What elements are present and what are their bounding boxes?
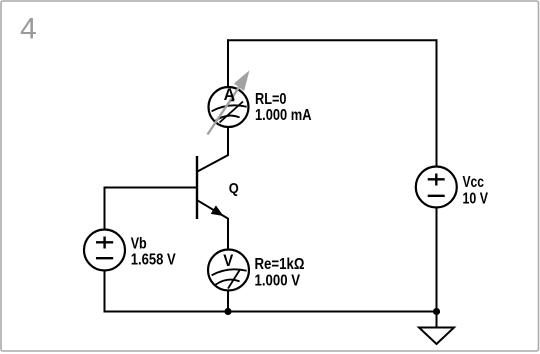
wire emitter to voltmeter bbox=[227, 218, 229, 250]
ammeter letter A bbox=[224, 85, 236, 104]
label Re=1kOhm / 1.000 V bbox=[255, 256, 305, 289]
label RL=0 / 1.000 mA bbox=[255, 91, 312, 124]
wire Vb bottom lead bbox=[104, 270, 106, 313]
wire base lead bbox=[104, 187, 198, 189]
svg-text:RL=0: RL=0 bbox=[255, 91, 287, 108]
svg-text:1.000 mA: 1.000 mA bbox=[255, 107, 312, 124]
junction node at voltmeter/bottom rail bbox=[224, 308, 231, 315]
wire top rail bbox=[227, 39, 438, 41]
transistor Q bbox=[197, 155, 229, 219]
wire bottom rail bbox=[104, 311, 438, 313]
svg-text:1.000 V: 1.000 V bbox=[255, 272, 301, 289]
wire Vcc bottom lead to ground bbox=[436, 207, 438, 328]
svg-text:1.658 V: 1.658 V bbox=[131, 252, 176, 269]
svg-text:Q: Q bbox=[229, 180, 239, 197]
svg-text:10 V: 10 V bbox=[463, 190, 489, 207]
source Vb bbox=[84, 230, 125, 271]
annotation arrow (gray) bbox=[208, 70, 250, 134]
svg-text:Vcc: Vcc bbox=[463, 174, 485, 191]
wire Vcc top lead bbox=[436, 39, 438, 167]
label Vb / 1.658 V bbox=[131, 236, 176, 269]
wire voltmeter bottom lead bbox=[227, 290, 229, 313]
voltmeter Re bbox=[208, 250, 249, 291]
source Vcc bbox=[416, 167, 457, 208]
svg-text:4: 4 bbox=[20, 12, 37, 45]
svg-text:Re=1kΩ: Re=1kΩ bbox=[255, 256, 305, 273]
ground bbox=[419, 328, 454, 345]
svg-text:V: V bbox=[223, 251, 234, 270]
wire ammeter top lead bbox=[227, 39, 229, 87]
wire ammeter bottom to collector bbox=[227, 127, 229, 156]
ammeter RL bbox=[209, 87, 249, 127]
wire base down to Vb bbox=[104, 187, 106, 231]
svg-text:Vb: Vb bbox=[131, 236, 147, 253]
label Vcc / 10 V bbox=[463, 174, 489, 208]
junction node at Vcc/bottom rail bbox=[433, 308, 440, 315]
